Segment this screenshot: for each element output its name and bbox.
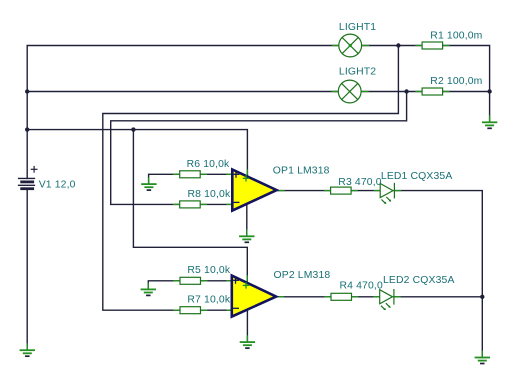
op-amp U2 OP2: [232, 276, 276, 317]
ground G2 (left of R6): [142, 184, 156, 190]
wire: ground G2 to R6 to OP1 + input: [149, 174, 180, 184]
wire: rail3 power to OP1 V+: [27, 130, 247, 177]
wire: LED2 to node: [394, 296, 482, 298]
ground G7 (battery): [21, 350, 35, 356]
resistor R2: [422, 88, 443, 95]
resistor R6: [180, 171, 201, 178]
lamp LIGHT1: [339, 34, 362, 57]
wire: OP1 output to R3: [278, 190, 331, 192]
svg-text:R3 470,0: R3 470,0: [338, 177, 381, 188]
battery V1: [19, 167, 37, 189]
svg-text:R5 10,0k: R5 10,0k: [187, 265, 230, 276]
ground G4 (left of R5): [142, 289, 156, 295]
wire: LIGHT2 right to R2: [361, 91, 422, 93]
wire: node down to ground G6: [481, 297, 483, 358]
resistor R4: [331, 293, 352, 300]
wire: battery minus to ground G7: [26, 189, 28, 351]
ground G3 (OP1 V-): [240, 236, 254, 242]
svg-text:R4 470,0: R4 470,0: [340, 281, 383, 292]
svg-text:R8 10,0k: R8 10,0k: [188, 189, 231, 200]
svg-text:LIGHT2: LIGHT2: [339, 67, 376, 78]
op-amp U1 OP1: [232, 170, 276, 211]
wire: battery plus riser: [27, 46, 339, 179]
wire: power branch to OP2 V+: [133, 130, 247, 283]
green pin stubs: [27, 46, 489, 358]
ground G1 (below R2 node): [483, 122, 497, 128]
wire: R3 to LED1: [351, 190, 380, 192]
wire: sense net from LIGHT1 node to R7 (OP2 inverting input): [103, 46, 399, 311]
svg-text:OP2 LM318: OP2 LM318: [274, 270, 331, 281]
resistor R5: [180, 277, 201, 284]
wire: sense net from LIGHT2 node to R8 (OP1 inverting input): [111, 92, 407, 205]
wire: LED1 to right edge down to LED2 node: [394, 191, 482, 297]
resistor R1: [422, 42, 443, 49]
wire: OP2 V- pin to ground G5: [246, 311, 248, 342]
wire: R4 to LED2: [352, 296, 381, 298]
wire: R1 right to corner down to R2 node: [443, 46, 490, 92]
ground G5 (OP2 V-): [241, 342, 255, 348]
svg-text:R7 10,0k: R7 10,0k: [187, 295, 230, 306]
wire: R8 to OP1 - input: [200, 203, 233, 205]
wire: OP1 V- pin to ground G3: [246, 205, 248, 236]
svg-text:R1 100,0m: R1 100,0m: [430, 31, 482, 42]
resistor R7: [180, 307, 201, 314]
wire: R7 to OP2 - input: [201, 309, 233, 311]
resistor R3: [331, 187, 352, 194]
svg-text:LED2 CQX35A: LED2 CQX35A: [383, 275, 455, 286]
svg-text:LIGHT1: LIGHT1: [339, 22, 376, 33]
resistor R8: [180, 201, 201, 208]
svg-text:R2 100,0m: R2 100,0m: [430, 76, 482, 87]
svg-text:R6 10,0k: R6 10,0k: [187, 159, 230, 170]
svg-text:V1 12,0: V1 12,0: [39, 180, 76, 191]
svg-text:LED1 CQX35A: LED1 CQX35A: [381, 171, 453, 182]
svg-text:OP1 LM318: OP1 LM318: [273, 166, 330, 177]
wire: LIGHT1 right to R1: [362, 45, 422, 47]
LED2: [380, 290, 394, 310]
wire: OP2 output to R4: [278, 296, 332, 298]
lamp LIGHT2: [338, 80, 361, 103]
wire: ground G4 to R5 to OP2 + input: [148, 281, 180, 290]
wire: R2 right to node: [443, 91, 490, 93]
ground G6 (bottom right): [476, 358, 490, 364]
LED1: [380, 183, 394, 203]
wire: rail2 to LIGHT2: [27, 91, 338, 93]
wire: node down to ground G1: [489, 92, 491, 123]
